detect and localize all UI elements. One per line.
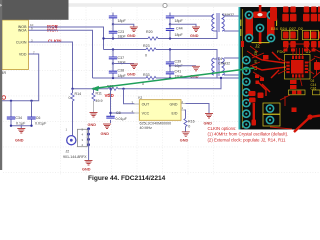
svg-text:R20: R20 — [146, 30, 153, 34]
choke L3 (top, partial) — [212, 13, 239, 32]
J2 coax cluster top-left — [246, 5, 275, 44]
svg-text:GND: GND — [180, 139, 189, 143]
svg-text:0.01µF: 0.01µF — [35, 121, 47, 125]
svg-text:C37: C37 — [118, 56, 125, 60]
svg-text:C6: C6 — [36, 116, 41, 120]
svg-text:4R: 4R — [2, 71, 7, 75]
svg-text:(2) External clock: populate J: (2) External clock: populate J2, R14, R1… — [208, 137, 287, 142]
bottom right — [289, 90, 320, 95]
svg-text:R33: R33 — [143, 73, 150, 77]
capacitor C39 — [169, 50, 171, 66]
svg-text:0.1µF: 0.1µF — [16, 121, 26, 125]
svg-text:R23: R23 — [143, 44, 150, 48]
svg-text:CLKIN options:: CLKIN options: — [208, 126, 237, 131]
faint page grid — [3, 7, 320, 175]
ground for R11 — [90, 113, 98, 118]
svg-text:40 MHz: 40 MHz — [140, 126, 153, 130]
svg-text:VDD: VDD — [105, 93, 114, 98]
gnd join wire — [11, 126, 32, 128]
svg-text:CLKIN: CLKIN — [16, 40, 27, 44]
junction dots — [10, 23, 222, 102]
PCB image — [239, 5, 320, 132]
CLKIN options red note — [208, 126, 289, 143]
svg-text:0: 0 — [69, 96, 71, 100]
red edge marker circle — [2, 96, 6, 100]
svg-text:C34: C34 — [15, 116, 22, 120]
svg-text:GND: GND — [127, 73, 136, 77]
cap column 1: top cap C22 — [113, 13, 134, 32]
green annotation arrow — [91, 68, 254, 91]
resistor R20 — [148, 37, 158, 40]
svg-text:VDD: VDD — [19, 52, 27, 56]
white arrow marker — [0, 4, 1, 7]
ground for Y2 — [205, 114, 213, 119]
resistor R16 — [184, 119, 187, 127]
svg-text:OUT: OUT — [142, 102, 150, 106]
svg-text:CMH32: CMH32 — [218, 62, 230, 66]
svg-text:C44: C44 — [176, 27, 183, 31]
light gray band top — [69, 3, 320, 7]
svg-text:C23: C23 — [118, 30, 125, 34]
ground — [17, 129, 25, 134]
svg-text:R16: R16 — [188, 120, 195, 124]
svg-text:C8: C8 — [116, 111, 121, 115]
svg-text:R14: R14 — [75, 92, 82, 96]
svg-text:0: 0 — [188, 124, 190, 128]
svg-text:18pF: 18pF — [118, 34, 127, 38]
dark gray top-left block — [0, 0, 69, 20]
svg-text:GND: GND — [190, 34, 199, 38]
capacitor C8 — [106, 116, 114, 118]
svg-text:18pF: 18pF — [175, 33, 184, 37]
wire VDD to VCC and C8 — [111, 90, 135, 123]
ground for J2 — [85, 161, 93, 166]
svg-text:GND: GND — [88, 123, 97, 127]
node wire C39/C41 to GND — [170, 66, 196, 72]
svg-text:CLKIN: CLKIN — [48, 39, 61, 44]
svg-text:GND: GND — [82, 168, 91, 172]
crystal area bottom — [249, 91, 264, 126]
capacitor C41 — [169, 74, 171, 78]
svg-text:(1) 40MHz from Crystal oscilla: (1) 40MHz from Crystal oscillator (defau… — [208, 132, 289, 137]
resistor R14 — [72, 89, 74, 136]
svg-text:C41: C41 — [175, 70, 182, 74]
ground for R16 — [182, 132, 190, 137]
wire Y2 GND pin — [181, 103, 186, 105]
ground for C8 — [103, 124, 111, 129]
wire rail B — [104, 50, 218, 60]
wire Y2 E/D to R16 — [181, 109, 185, 111]
resistor R33 — [146, 76, 156, 79]
wire Y2 OUT — [134, 103, 139, 105]
node wire C37/C38 to GND — [113, 64, 134, 72]
svg-text:GND: GND — [127, 34, 136, 38]
resistor R11 — [93, 89, 95, 93]
svg-text:VCC: VCC — [142, 112, 150, 116]
svg-text:L4: L4 — [218, 57, 222, 61]
ground for C22 — [130, 27, 138, 32]
svg-text:C39: C39 — [175, 60, 182, 64]
middle small red pads/traces — [241, 41, 269, 84]
VDD rail caps: capacitor C34 — [10, 101, 12, 126]
svg-text:18pF: 18pF — [118, 74, 127, 78]
svg-text:49.9: 49.9 — [96, 99, 103, 103]
svg-text:0.01µF: 0.01µF — [116, 117, 128, 121]
svg-text:18pF: 18pF — [175, 19, 184, 23]
wire rail C — [93, 73, 239, 78]
svg-text:GND: GND — [101, 132, 110, 136]
svg-text:625L3C040M00000: 625L3C040M00000 — [140, 121, 172, 125]
IC U1 (yellow box, cut at left) — [2, 20, 28, 70]
selection handle circle — [163, 3, 167, 7]
svg-text:J2: J2 — [255, 44, 260, 49]
capacitor C44 — [169, 31, 171, 39]
svg-text:INOA: INOA — [18, 28, 27, 32]
extra pcb traces — [247, 44, 320, 129]
oscillator Y2 — [132, 96, 184, 130]
svg-text:C38: C38 — [118, 69, 125, 73]
wire Y2 VCC — [134, 112, 139, 114]
capacitor C23 — [112, 33, 114, 38]
capacitor C37 — [112, 50, 114, 64]
connector J2 — [63, 127, 90, 160]
FDC chip U1 — [285, 55, 311, 80]
left via column — [243, 57, 250, 64]
right-top connector clusters — [270, 7, 320, 48]
capacitor C6 — [31, 101, 33, 126]
svg-text:R11: R11 — [96, 92, 102, 96]
svg-text:GND: GND — [15, 139, 24, 143]
svg-text:J2: J2 — [66, 150, 70, 154]
capacitor C38 — [112, 73, 114, 78]
svg-text:GND: GND — [170, 102, 178, 106]
choke L4 — [212, 57, 239, 76]
wire INOB — [28, 27, 103, 50]
wire rail D — [73, 78, 222, 89]
svg-text:E/D: E/D — [172, 112, 178, 116]
wire INOA — [28, 30, 92, 78]
cap column 2: top cap C43 — [170, 13, 213, 29]
wire CLKIN — [28, 42, 72, 89]
svg-text:Figure 44. FDC2114/2214: Figure 44. FDC2114/2214 — [88, 175, 166, 182]
wire rail A — [104, 31, 218, 39]
resistor R23 — [146, 48, 156, 51]
wire VDD pin — [2, 54, 39, 101]
resistor R22 — [108, 87, 118, 90]
svg-text:901-144-8RFX: 901-144-8RFX — [63, 155, 87, 159]
svg-text:Y2: Y2 — [138, 96, 142, 100]
svg-text:18pF: 18pF — [118, 19, 127, 23]
ground for C43 — [192, 27, 200, 32]
left gray strip — [0, 0, 2, 170]
svg-text:D24 D24 D27 D2: D24 D24 D27 D2 — [271, 28, 304, 32]
svg-text:0: 0 — [145, 54, 147, 58]
